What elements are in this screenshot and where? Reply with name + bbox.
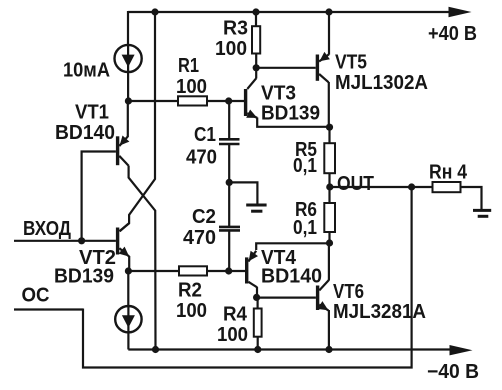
transistor VT3 BD139 [244, 89, 247, 116]
junction dot mid node [226, 179, 233, 186]
resistor R1 [178, 96, 207, 105]
junction dot rail/VT2c [151, 8, 158, 15]
wire: VT5 base wire [256, 67, 316, 69]
svg-text:VT5: VT5 [335, 52, 367, 74]
junction dot rail/R3 [252, 8, 259, 15]
junction dot input/VT1 base [78, 237, 85, 244]
svg-text:0,1: 0,1 [293, 155, 317, 177]
svg-text:VT6: VT6 [333, 281, 364, 303]
wire: through current source I1 [127, 46, 129, 102]
svg-text:MJL1302A: MJL1302A [335, 72, 428, 94]
resistor Rн 4 (load) [433, 182, 461, 192]
wire: C1 bottom to C2 top [228, 145, 230, 226]
wire: VT1 emitter lead [127, 101, 129, 137]
wire: +40V top rail [128, 11, 452, 13]
wire: input ВХОД [14, 240, 116, 242]
svg-text:ОС: ОС [22, 285, 50, 307]
capacitor C2 top plate [219, 226, 240, 229]
svg-text:OUT: OUT [337, 173, 374, 195]
wire: VT5 emitter lead to +40V [328, 12, 330, 55]
ground symbol (right) [473, 209, 491, 212]
transistor VT5 MJL1302A [316, 55, 319, 81]
wire: feedback path OC to OUT [83, 187, 412, 368]
resistor R3 [252, 26, 260, 53]
current source I2 arrow [122, 315, 135, 328]
wire: VT2 emitter / R2 node horizontal [128, 270, 245, 272]
svg-text:−40 В: −40 В [427, 361, 479, 383]
wire: C1 top lead [228, 101, 230, 138]
wire: VT1 emitter / R1 node horizontal [128, 100, 244, 102]
wire: R2 node down to current source I2 [127, 271, 129, 307]
transistor VT1 BD140 [116, 136, 119, 165]
svg-text:BD140: BD140 [261, 266, 322, 288]
svg-text:0,1: 0,1 [293, 217, 317, 239]
current source I1 (10mA) circle [115, 45, 142, 72]
wire: OUT node horizontal [330, 186, 433, 188]
junction dot node VT1e/I1 [125, 97, 132, 104]
wire: VT6 base wire [257, 297, 316, 299]
resistor R6 [324, 203, 335, 232]
resistor R4 [254, 309, 262, 337]
svg-text:+40 В: +40 В [428, 23, 477, 45]
resistor R2 [179, 266, 207, 275]
svg-text:470: 470 [186, 147, 217, 169]
junction dot rail/VT1 collector [152, 346, 159, 353]
wire: Rн to right ground [461, 187, 482, 210]
svg-text:BD139: BD139 [261, 103, 320, 125]
wire: R3 bottom to VT3c/VT5b node [255, 54, 257, 69]
wire: VT4 collector lead [256, 287, 258, 297]
wire: VT4 emitter node horizontal [256, 243, 329, 250]
wire: mid node to ground [229, 182, 257, 205]
wire: R6 bottom to VT4e/VT6c node [328, 232, 330, 243]
wire: R4 bottom lead [257, 337, 259, 350]
wire: R6 top lead [328, 187, 330, 204]
svg-text:10мА: 10мА [63, 60, 110, 82]
wire: through current source I2 [127, 307, 129, 350]
junction dot rail/VT5e [325, 8, 332, 15]
junction dot rail/R4 [254, 346, 261, 353]
svg-text:BD139: BD139 [54, 266, 114, 288]
wire: R4 top lead [257, 297, 259, 309]
transistor VT4 BD140 [245, 257, 248, 283]
svg-text:C1: C1 [194, 124, 216, 146]
svg-text:Rн 4: Rн 4 [429, 162, 468, 184]
svg-text:MJL3281A: MJL3281A [333, 301, 426, 323]
wire: VT3 emitter to R5 top node [257, 118, 329, 127]
junction dot node C1/VT3 base [225, 97, 232, 104]
transistor VT2 BD139 [116, 228, 119, 255]
svg-text:R2: R2 [178, 280, 202, 302]
wire: VT1 base left and down to input [82, 152, 116, 241]
wire: VT3 collector lead [255, 68, 257, 79]
wire: VT5 collector lead [328, 82, 330, 127]
svg-text:R3: R3 [223, 18, 248, 40]
junction dot VT4c/VT6b/R4 [253, 294, 260, 301]
junction dot rail/VT6e [325, 346, 332, 353]
wire: R3 top lead [255, 12, 257, 27]
current source I1 arrow [122, 55, 135, 68]
current source I2 circle [115, 306, 141, 332]
wire: top rail corner down to current source I1 [127, 11, 129, 46]
svg-text:R1: R1 [178, 55, 199, 77]
junction dot VT3e/VT5c/R5 [326, 124, 333, 131]
svg-text:BD140: BD140 [55, 122, 115, 144]
wire: R5 bottom to OUT [328, 173, 330, 187]
capacitor C2 bottom plate [219, 229, 240, 232]
junction dot node VT2e/I2 [125, 267, 132, 274]
wire: VT6 collector lead [328, 243, 330, 280]
wire: VT2 emitter lead [128, 256, 130, 271]
resistor R5 [324, 143, 335, 173]
junction dot R6/VT4e/VT6c [326, 239, 333, 246]
wire: ОС feedback input [14, 308, 83, 310]
wire: VT6 emitter lead [328, 310, 330, 350]
wire: rail to VT2 collector (crossed) [120, 12, 155, 231]
svg-text:470: 470 [183, 227, 216, 249]
wire: VT1 collector to -40V rail (crossed) [129, 166, 156, 349]
svg-text:100: 100 [176, 300, 207, 322]
svg-text:100: 100 [215, 38, 247, 60]
svg-text:100: 100 [217, 324, 248, 346]
junction dot OUT/feedback [408, 183, 415, 190]
junction dot OUT node [326, 183, 333, 190]
svg-text:R4: R4 [223, 304, 248, 326]
power +40V rail arrow [449, 7, 472, 17]
capacitor C1 top plate [219, 138, 240, 141]
junction dot node C2/VT4 base [225, 267, 232, 274]
transistor VT6 MJL3281A [316, 286, 319, 311]
svg-text:VT1: VT1 [75, 102, 109, 124]
wire: R5 top lead [328, 127, 330, 144]
svg-text:VT3: VT3 [261, 83, 296, 105]
svg-text:C2: C2 [192, 206, 216, 228]
power -40V rail arrow [450, 345, 473, 355]
svg-text:ВХОД: ВХОД [23, 218, 71, 240]
junction dot VT3c/R3/VT5b [253, 64, 260, 71]
wire: C2 bottom lead [228, 232, 230, 272]
ground symbol (mid) [246, 204, 266, 207]
capacitor C1 bottom plate [219, 143, 240, 146]
wire: -40V bottom rail [128, 348, 453, 350]
svg-text:100: 100 [176, 76, 207, 98]
